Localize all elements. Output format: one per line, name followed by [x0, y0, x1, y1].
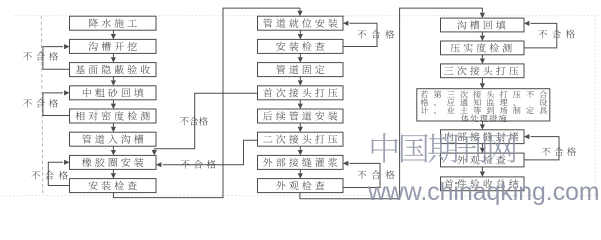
label text 管道固定	[276, 65, 324, 74]
process box R1 沟槽回填	[441, 18, 525, 32]
feedback 安装检查-橡胶圈安装 不合格	[48, 162, 69, 185]
label text 管道就位安装	[263, 18, 337, 27]
label text 相对密度检测	[76, 111, 150, 120]
label 不合格 8	[538, 30, 575, 39]
label 不合格 2	[23, 99, 58, 108]
label text 内部接缝封堵	[445, 132, 518, 141]
process box M6 二次接头打压	[258, 132, 344, 146]
flow arrow middle column	[299, 146, 301, 150]
flow arrow left column	[112, 123, 114, 127]
flow arrow note-内部接缝封堵	[481, 121, 483, 124]
process box L1 降水施工	[70, 16, 157, 30]
process box M3 管道固定	[258, 63, 344, 77]
process box L5 相对密度检测	[70, 109, 157, 123]
flow arrow 三次接头打压-note	[481, 78, 483, 84]
label text 管道入沟槽	[82, 135, 143, 144]
process box L8 安装检查	[70, 179, 157, 193]
process box M5 后续管道安装	[258, 109, 344, 123]
label text 三次接头打压	[444, 66, 518, 75]
process box R6 首件验收总结	[441, 177, 525, 191]
label text 基面隐蔽验收	[76, 65, 150, 74]
label text 后续管道安装	[263, 111, 337, 120]
label 不合格 5	[180, 117, 208, 126]
feedback 相对密度检测-中粗砂回填 不合格	[43, 93, 70, 116]
label 不合格 7	[358, 170, 395, 179]
flow arrow left column	[112, 77, 114, 81]
dotted rule bottom	[2, 195, 598, 197]
connector 外观检查-沟槽回填	[300, 8, 483, 199]
flow arrow left column	[112, 169, 114, 173]
label text 沟槽开挖	[89, 42, 137, 51]
label text 压实度检测	[451, 43, 512, 52]
feedback 压实度检测-沟槽回填 不合格	[524, 23, 557, 48]
label text 外观检查	[457, 155, 505, 164]
note box 若第三次接头打压不合格处理措施	[417, 89, 550, 121]
label text 外观检查	[276, 181, 324, 190]
label text 中粗砂回填	[83, 88, 144, 97]
note line 1	[421, 90, 547, 98]
feedback 外观检查-外部接缝灌浆 不合格	[343, 163, 380, 187]
flow arrow middle column	[299, 77, 301, 81]
feedback 外观检查-内部接缝封堵 不合格	[524, 137, 559, 160]
flow arrow 压实度检测-三次接头打压	[481, 55, 483, 59]
process box R2 压实度检测	[441, 41, 525, 55]
process box M1 管道就位安装	[258, 16, 344, 30]
note line 3	[421, 107, 547, 115]
process box L7 橡胶圈安装	[70, 155, 157, 169]
flow arrow left column	[112, 30, 114, 34]
process box M4 首次接头打压	[258, 86, 344, 100]
process box L3 基面隐蔽验收	[70, 63, 157, 77]
process box M2 安装检查	[258, 39, 344, 53]
label text 降水施工	[89, 18, 137, 27]
flow arrow left column	[112, 100, 114, 104]
flow arrow middle column	[299, 169, 301, 173]
flow arrow middle column	[299, 100, 301, 104]
label 不合格 9	[542, 147, 577, 156]
process box M7 外部接缝灌浆	[258, 155, 344, 169]
process box L2 沟槽开挖	[70, 39, 157, 53]
process box R4 内部接缝封堵	[441, 130, 525, 144]
label 不合格 4	[357, 30, 394, 39]
flow arrow left column	[112, 53, 114, 57]
feedback 二次接头打压-橡胶圈安装 不合格	[163, 140, 258, 165]
feedback 安装检查-管道就位安装 不合格	[343, 23, 377, 46]
label text 沟槽回填	[457, 20, 505, 29]
label 不合格 3	[31, 171, 68, 180]
flow arrow left column	[112, 146, 114, 150]
label text 安装检查	[276, 42, 324, 51]
note line 2	[421, 98, 548, 106]
process box R3 三次接头打压	[441, 64, 525, 78]
process box L4 中粗砂回填	[70, 86, 157, 100]
svg-text:www.chinaqking.com: www.chinaqking.com	[367, 179, 600, 205]
note line 4	[461, 115, 506, 123]
flow arrow 沟槽回填-压实度检测	[481, 32, 483, 36]
label text 二次接头打压	[263, 134, 337, 143]
flow arrow middle column	[299, 53, 301, 57]
label 不合格 6	[181, 160, 216, 169]
dashed vertical left	[41, 16, 43, 196]
process box L6 管道入沟槽	[70, 132, 157, 146]
dotted vertical right	[594, 16, 596, 196]
label text 首件验收总结	[444, 179, 518, 188]
label 不合格 1	[23, 52, 58, 61]
label text 橡胶圈安装	[82, 158, 143, 167]
process box M8 外观检查	[258, 179, 344, 193]
label text 首次接头打压	[263, 88, 337, 97]
flow arrow middle column	[299, 30, 301, 34]
connector 安装检查-管道就位安装	[113, 8, 300, 198]
flow arrow 内部接缝封堵-外观检查	[481, 144, 483, 148]
feedback 基面隐蔽验收-沟槽开挖 不合格	[43, 47, 70, 70]
flow arrow middle column	[299, 123, 301, 127]
flow arrow 外观检查-首件验收总结	[481, 167, 483, 172]
label text 安装检查	[89, 181, 137, 190]
dotted rule top	[14, 15, 598, 17]
watermark 中国期刊网	[372, 133, 517, 163]
process box R5 外观检查	[441, 153, 525, 167]
feedback 首次接头打压-橡胶圈安装 不合格	[154, 93, 257, 149]
label text 外部接缝灌浆	[263, 158, 337, 167]
